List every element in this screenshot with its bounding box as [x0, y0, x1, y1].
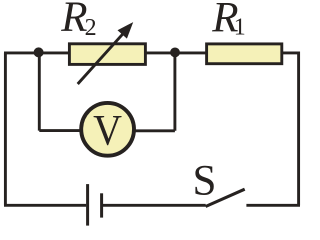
wire: bottom left segment to battery	[4, 204, 86, 207]
svg-text:2: 2	[85, 15, 97, 41]
resistor R1	[207, 44, 282, 64]
battery short plate	[100, 193, 103, 217]
wire: R2 right to R1 left	[145, 51, 207, 54]
switch S blade	[206, 189, 245, 206]
wire: R1 right to top-right corner	[281, 51, 299, 54]
node A: junction dot left of R2	[34, 47, 44, 57]
wire: battery to switch pivot	[103, 204, 206, 207]
wire: right vertical side	[297, 52, 300, 206]
voltmeter U1 circle	[81, 103, 134, 156]
wire: left vertical side	[4, 53, 7, 205]
rheostat arrow shaft	[78, 33, 124, 84]
wire: voltmeter branch right horizontal	[135, 129, 175, 132]
svg-text:S: S	[193, 157, 217, 204]
battery long plate	[86, 184, 89, 226]
wire: switch right contact to bottom-right corner	[246, 204, 300, 207]
wire: voltmeter branch left vertical from node A	[38, 53, 41, 131]
node B: junction dot between R2 and R1	[170, 48, 180, 58]
svg-text:R: R	[60, 0, 87, 41]
wire: top-left horizontal to R2	[4, 51, 70, 54]
svg-text:V: V	[93, 106, 122, 154]
wire: voltmeter branch left horizontal	[39, 129, 81, 132]
wire: voltmeter branch right vertical to node B	[173, 53, 176, 131]
rheostat arrowhead	[118, 22, 134, 38]
svg-text:1: 1	[234, 15, 246, 41]
resistor R2 (rheostat body)	[69, 44, 145, 65]
